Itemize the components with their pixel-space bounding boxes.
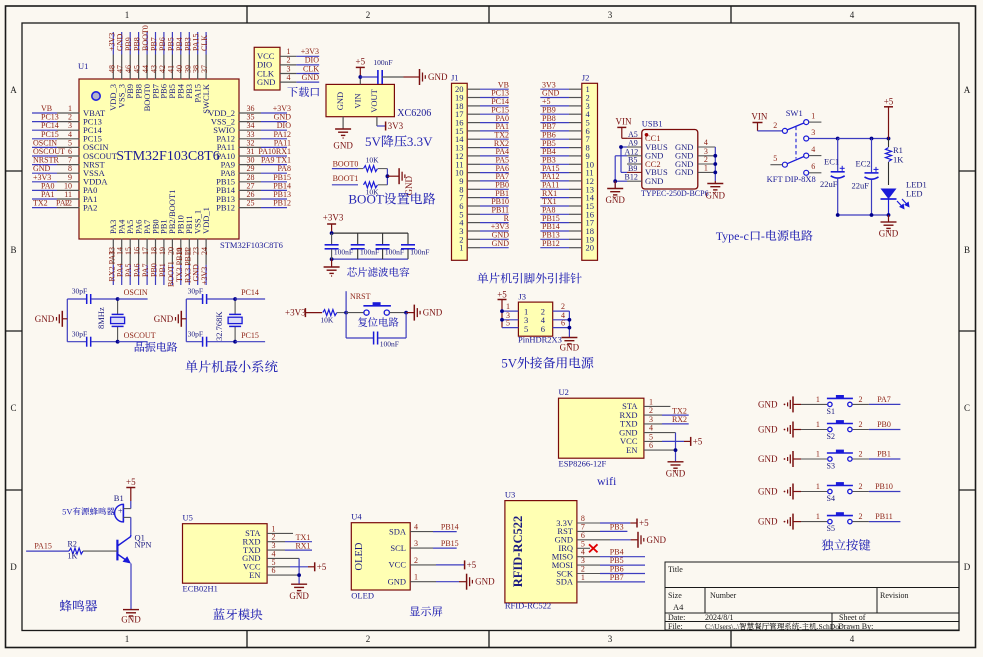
svg-text:CLK: CLK	[200, 35, 209, 51]
svg-text:Date:: Date:	[668, 613, 685, 622]
ground bar at XC6206 input cap	[419, 69, 421, 85]
svg-text:PB12: PB12	[216, 202, 235, 212]
button S2 net PB0	[801, 429, 827, 431]
U1 pin 7 NRST wire/net NRSTR	[57, 164, 80, 166]
U1 pin 40 PB4 wire/net PB4	[180, 55, 182, 80]
title block	[665, 562, 959, 630]
svg-text:B: B	[964, 245, 970, 255]
svg-text:Drawn By:: Drawn By:	[838, 622, 873, 631]
U1 pin 3 PC14 wire/net PC14	[57, 129, 80, 131]
svg-text:5V有源蜂鸣器: 5V有源蜂鸣器	[62, 506, 115, 518]
svg-text:BOOT设置电路: BOOT设置电路	[348, 188, 435, 207]
J3 pin 6 wire	[553, 327, 570, 329]
svg-text:复位电路: 复位电路	[357, 314, 399, 329]
U1 pin 1 VBAT wire/net VB	[57, 112, 80, 114]
svg-text:GND: GND	[302, 73, 320, 82]
svg-text:+5: +5	[126, 477, 136, 487]
connector USB1 TYPEC body	[642, 130, 698, 190]
wire buzzer to Q1 collector	[130, 517, 132, 534]
svg-text:1: 1	[811, 112, 815, 121]
U1 pin 25 PB12 wire/net PB12	[239, 207, 262, 209]
U2 GND wire to earth	[644, 432, 676, 434]
U5 VCC wire to +5	[267, 566, 290, 568]
svg-text:Type-c口-电源电路: Type-c口-电源电路	[716, 227, 813, 244]
svg-text:S4: S4	[827, 494, 835, 503]
ground bar reset	[413, 305, 415, 321]
svg-text:PA2: PA2	[83, 202, 97, 212]
U1 pin 39 PB3 wire/net PB3	[188, 55, 190, 80]
ground earth below filter caps	[331, 259, 333, 266]
svg-text:4: 4	[811, 145, 815, 154]
svg-text:1: 1	[816, 450, 820, 459]
svg-text:GND: GND	[647, 535, 667, 545]
svg-text:PB7: PB7	[610, 573, 624, 582]
U1 pin 4 PC15 wire/net PC15	[57, 138, 80, 140]
svg-text:6: 6	[649, 441, 653, 450]
svg-text:30pF: 30pF	[188, 287, 203, 296]
svg-text:VOUT: VOUT	[369, 88, 379, 112]
svg-text:GND: GND	[121, 615, 141, 625]
svg-text:NPN: NPN	[135, 540, 152, 550]
svg-text:+5: +5	[497, 290, 507, 300]
connector J1 body	[452, 83, 468, 260]
svg-text:100nF: 100nF	[380, 340, 399, 349]
svg-text:30pF: 30pF	[188, 330, 203, 339]
button S5 net PB11	[801, 521, 827, 523]
svg-text:2: 2	[859, 482, 863, 491]
U1 pin 26 PB13 wire/net PB13	[239, 198, 262, 200]
svg-text:GND: GND	[335, 92, 345, 110]
svg-text:Number: Number	[710, 591, 737, 600]
ground bar 8MHz	[62, 318, 67, 320]
svg-text:100nF: 100nF	[334, 247, 353, 256]
crystal circuit 32.768K left rail	[185, 299, 187, 342]
svg-text:蜂鸣器: 蜂鸣器	[59, 596, 98, 615]
svg-text:Sheet of: Sheet of	[839, 613, 866, 622]
ground earth J3	[561, 337, 577, 339]
USB1 pin B9 VBUS	[627, 171, 642, 173]
svg-text:2: 2	[366, 634, 371, 644]
svg-text:100nF: 100nF	[410, 247, 429, 256]
U3 RST wire PB3	[577, 530, 600, 532]
capacitor 100nF reset	[345, 313, 347, 338]
U3 IRQ no connect X	[577, 547, 590, 549]
capacitor 100nF at XC6206	[360, 76, 378, 78]
svg-text:1: 1	[816, 512, 820, 521]
U1 pin 14 PA4 wire/net PA4	[121, 239, 123, 265]
svg-text:wifi: wifi	[597, 474, 617, 488]
svg-text:4: 4	[649, 424, 653, 433]
svg-text:VCC: VCC	[389, 560, 407, 570]
filter cap bottom rail	[332, 258, 408, 260]
svg-text:10K: 10K	[320, 316, 334, 325]
reset button S	[346, 312, 364, 314]
crystal 8MHz	[117, 299, 119, 314]
power flag 3V3	[385, 122, 387, 131]
wire cap to GND bar	[382, 76, 403, 78]
svg-text:下载口: 下载口	[287, 84, 320, 100]
U1 pin 41 PB5 wire/net PB5	[171, 55, 173, 80]
bottom rail LED circuit	[838, 214, 889, 216]
button S1 net PA7	[801, 403, 827, 405]
filter cap top rail	[332, 232, 408, 234]
USB1 pin A5 CC1	[627, 137, 642, 139]
U3 GND wire to ground bar	[577, 539, 610, 541]
svg-text:3: 3	[811, 128, 815, 137]
svg-text:PA15: PA15	[34, 541, 52, 550]
svg-text:32.768K: 32.768K	[214, 311, 224, 341]
svg-text:3: 3	[649, 415, 653, 424]
capacitor C2 100nF	[357, 233, 359, 245]
node OSCIN	[116, 297, 120, 301]
svg-text:SCL: SCL	[390, 543, 406, 553]
svg-text:1: 1	[414, 573, 418, 582]
svg-text:2: 2	[859, 512, 863, 521]
svg-text:GND: GND	[675, 167, 693, 177]
svg-text:EN: EN	[626, 445, 637, 455]
ground earth U5	[291, 583, 307, 585]
svg-text:U4: U4	[351, 512, 362, 522]
svg-text:U3: U3	[505, 490, 515, 500]
svg-text:B: B	[10, 245, 16, 255]
U1 pin 18 PB0 wire/net PB0	[155, 239, 157, 265]
svg-text:4: 4	[414, 523, 418, 532]
J3 pin 1 wire	[502, 310, 518, 312]
USB1 pin B5 CC2	[627, 163, 642, 165]
svg-text:PB11: PB11	[875, 512, 893, 521]
U1 pin 16 PA6 wire/net PA6	[138, 239, 140, 265]
svg-text:芯片滤波电容: 芯片滤波电容	[347, 265, 410, 280]
module U4 OLED body	[351, 523, 410, 590]
U1 pin 37 SWCLK wire/net CLK	[205, 55, 207, 80]
svg-text:PB12: PB12	[273, 199, 291, 208]
svg-text:SDA: SDA	[556, 577, 574, 587]
U1 pin 6 OSCOUT wire/net OSCOUT	[57, 155, 80, 157]
svg-text:U1: U1	[78, 61, 88, 71]
U5 GND wire	[267, 557, 299, 559]
SW1 pole 5	[782, 162, 787, 167]
U1 pin 10 PA0 wire/net PA0	[57, 189, 80, 191]
U1 pin 11 PA1 wire/net PA1	[57, 198, 80, 200]
svg-text:GND: GND	[492, 239, 510, 248]
ground earth USB1 left	[614, 181, 616, 188]
op-amp U1 body STM32F103C8T6	[79, 79, 239, 239]
svg-text:D: D	[10, 562, 17, 572]
svg-text:单片机引脚外引排针: 单片机引脚外引排针	[477, 271, 583, 287]
USB1 VBUS left rail	[620, 147, 622, 172]
svg-text:GND: GND	[154, 314, 174, 324]
ground earth LED circuit	[888, 215, 890, 222]
U1 pin 13 PA3 wire/net RX2 PA3	[112, 239, 114, 265]
svg-text:30pF: 30pF	[72, 287, 87, 296]
U2 EN wire	[644, 449, 676, 451]
svg-text:22uF: 22uF	[852, 181, 870, 191]
svg-text:Title: Title	[668, 565, 683, 574]
svg-text:25: 25	[247, 199, 255, 208]
svg-text:LED: LED	[906, 189, 923, 199]
svg-text:RX2: RX2	[672, 415, 687, 424]
svg-text:2: 2	[366, 10, 371, 20]
node PC14	[233, 297, 237, 301]
svg-text:PB0: PB0	[877, 420, 891, 429]
J3 pin 3 wire	[502, 319, 518, 321]
U1 pin 29 PA8 wire/net PA8	[239, 172, 262, 174]
svg-text:File:: File:	[668, 622, 683, 631]
svg-text:GND: GND	[605, 195, 625, 205]
svg-text:8MHz: 8MHz	[96, 307, 106, 329]
svg-text:1: 1	[459, 243, 463, 253]
svg-text:TX2: TX2	[672, 406, 687, 415]
svg-text:NRST: NRST	[350, 292, 371, 301]
svg-text:蓝牙模块: 蓝牙模块	[213, 605, 264, 623]
svg-text:+5: +5	[317, 562, 327, 572]
USB1 A12-B12 left wire	[615, 155, 627, 157]
svg-text:Revision: Revision	[880, 591, 908, 600]
svg-text:VDD_1: VDD_1	[201, 207, 211, 234]
J3 pin 5 wire	[502, 327, 518, 329]
J3 pin 4 wire	[553, 319, 570, 321]
U1 pin 12 PA2 wire/net TX2	[57, 207, 80, 209]
svg-text:PB3: PB3	[610, 522, 624, 531]
svg-text:GND: GND	[758, 487, 778, 497]
svg-text:100nF: 100nF	[373, 58, 392, 67]
svg-text:S2: S2	[827, 432, 835, 441]
svg-text:SWCLK: SWCLK	[201, 83, 211, 114]
U1 pin 33 PA12 wire/net PA12	[239, 138, 262, 140]
svg-text:1K: 1K	[893, 155, 904, 165]
U1 pin 9 VDDA wire/net +3V3	[57, 181, 80, 183]
U1 pin 38 PA15 wire/net PA15	[197, 55, 199, 80]
SW1 throw 6	[804, 170, 809, 175]
U1 pin 32 PA11 wire/net PA11	[239, 146, 262, 148]
svg-text:2: 2	[859, 420, 863, 429]
node PC15	[233, 340, 237, 344]
U1 pin 46 PB9 wire/net PB9	[129, 55, 131, 80]
svg-text:GND: GND	[666, 469, 686, 479]
USB1 pin A9 VBUS	[627, 146, 642, 148]
regulator XC6206 body	[326, 84, 394, 116]
svg-text:GND: GND	[35, 314, 55, 324]
svg-text:Size: Size	[668, 591, 682, 600]
J3 pin 2 wire	[553, 310, 570, 312]
node reset right junction	[404, 311, 408, 315]
svg-text:S3: S3	[827, 462, 835, 471]
capacitor C4 100nF	[407, 233, 409, 245]
ground bar at BOOT divider	[398, 168, 400, 184]
svg-text:6: 6	[811, 162, 815, 171]
svg-text:TX2: TX2	[33, 199, 48, 208]
USB1 pin B12 GND	[627, 180, 642, 182]
resistor 10K lower BOOT1	[364, 182, 378, 188]
svg-text:6: 6	[541, 324, 545, 334]
svg-text:A9: A9	[628, 139, 638, 148]
svg-text:+3V3: +3V3	[323, 213, 344, 223]
U1 pin 20 PB2/BOOT1 wire/net BOOT1	[171, 239, 173, 265]
svg-text:GND: GND	[428, 72, 448, 82]
svg-text:A: A	[10, 85, 17, 95]
capacitor 30pF top 8MHz	[67, 298, 86, 300]
svg-text:OLED: OLED	[351, 590, 374, 600]
LED LED1	[881, 189, 897, 200]
svg-text:3: 3	[608, 10, 613, 20]
svg-text:PB15: PB15	[441, 539, 459, 548]
svg-text:GND: GND	[879, 229, 899, 239]
svg-text:ECB02H1: ECB02H1	[183, 584, 218, 594]
U1 pin 34 SWIO wire/net DIO	[239, 129, 262, 131]
svg-text:XC6206: XC6206	[397, 108, 431, 119]
connector J2 body	[582, 83, 598, 260]
svg-text:GND: GND	[475, 577, 495, 587]
capacitor EC1 22uF	[837, 139, 839, 172]
U3 pin wire PB7	[577, 581, 600, 583]
U1 pin 31 PA10 wire/net PA10RX1	[239, 155, 262, 157]
resistor R2 1K base	[26, 550, 69, 552]
SW1 pole 2 wire	[758, 130, 783, 132]
svg-text:C: C	[964, 403, 970, 413]
svg-text:S1: S1	[827, 407, 835, 416]
svg-text:GND: GND	[560, 343, 580, 353]
svg-text:U2: U2	[559, 387, 569, 397]
svg-text:USB1: USB1	[642, 119, 663, 129]
svg-text:STM32F103C8T6: STM32F103C8T6	[220, 240, 283, 250]
module U5 ECB02H1 body	[183, 524, 268, 584]
U1 pin 2 PC13 wire/net PC13	[57, 121, 80, 123]
svg-text:GND: GND	[758, 454, 778, 464]
capacitor 30pF bottom 8MHz	[67, 341, 86, 343]
wire +5 node to VIN	[359, 77, 361, 84]
capacitor C3 100nF	[382, 233, 384, 245]
svg-text:1: 1	[125, 10, 130, 20]
wire VOUT to 3V3 flag	[376, 117, 378, 126]
resistor 10K upper BOOT0	[358, 168, 363, 170]
resistor 10K reset	[323, 310, 337, 316]
U1 pin 48 VDD_3 wire/net +3V3	[112, 55, 114, 80]
svg-text:5: 5	[649, 432, 653, 441]
U4 VCC to +5	[410, 564, 436, 566]
node NRST	[344, 311, 348, 315]
SW1 throw 1	[804, 120, 809, 125]
USB1 right ground rail	[714, 147, 716, 181]
U1 pin 24 VDD_1 wire/net +3V3	[205, 239, 207, 265]
ground earth at XC6206 GND pin	[342, 117, 344, 129]
U4 GND to ground bar	[410, 581, 436, 583]
button S4 net PB10	[801, 491, 827, 493]
svg-text:6: 6	[561, 319, 565, 328]
U1 pin 47 VSS_3 wire/net GND	[121, 55, 123, 80]
svg-text:22uF: 22uF	[820, 179, 838, 189]
svg-text:2: 2	[561, 302, 565, 311]
svg-text:1: 1	[704, 164, 708, 173]
svg-text:+5: +5	[356, 56, 366, 66]
svg-text:4: 4	[850, 634, 855, 644]
button S3 net PB1	[801, 458, 827, 460]
transistor Q1 NPN	[116, 540, 118, 561]
U2 VCC wire to +5	[644, 440, 662, 442]
svg-text:TYPEC-250D-BCP6: TYPEC-250D-BCP6	[641, 189, 709, 198]
svg-text:1K: 1K	[68, 552, 78, 561]
U1 pin 19 PB1 wire/net PB1	[163, 239, 165, 265]
svg-text:5: 5	[506, 319, 510, 328]
svg-text:GND: GND	[388, 577, 406, 587]
svg-text:U5: U5	[183, 513, 193, 523]
svg-text:J2: J2	[582, 73, 590, 83]
U1 pin 17 PA7 wire/net PA7	[146, 239, 148, 265]
svg-text:4: 4	[287, 73, 291, 82]
svg-text:PC14: PC14	[241, 288, 259, 297]
svg-text:3: 3	[608, 634, 613, 644]
SW1 dashed link	[795, 127, 797, 159]
svg-text:EN: EN	[249, 570, 260, 580]
U1 pin 44 BOOT0 wire/net BOOT0	[146, 55, 148, 80]
capacitor 30pF bottom 32.768K	[186, 341, 202, 343]
U5 EN wire	[267, 574, 299, 576]
U1 pin 45 PB8 wire/net PB8	[138, 55, 140, 80]
svg-text:B9: B9	[628, 164, 637, 173]
crystal circuit 8MHz left rail	[66, 299, 68, 342]
svg-text:STM32F103C8T6: STM32F103C8T6	[116, 149, 219, 164]
svg-text:+5: +5	[693, 436, 703, 446]
svg-text:PA7: PA7	[877, 395, 891, 404]
svg-text:1: 1	[649, 397, 653, 406]
svg-text:RX1: RX1	[295, 541, 310, 550]
ground earth U2	[668, 461, 684, 463]
svg-text:C: C	[10, 403, 16, 413]
svg-text:+: +	[118, 507, 123, 516]
svg-text:+3V3: +3V3	[200, 267, 209, 285]
svg-text:1: 1	[125, 634, 130, 644]
svg-text:A: A	[964, 85, 971, 95]
svg-text:2: 2	[414, 556, 418, 565]
power flag +5 at XC6206	[356, 66, 365, 68]
svg-text:PC15: PC15	[241, 331, 259, 340]
svg-text:GND: GND	[645, 176, 663, 186]
svg-text:+5: +5	[884, 97, 894, 107]
svg-text:GND: GND	[333, 141, 353, 151]
svg-text:GND: GND	[758, 399, 778, 409]
svg-text:RFID-RC522: RFID-RC522	[505, 600, 551, 610]
svg-text:EC1: EC1	[824, 157, 839, 167]
svg-text:PB12: PB12	[542, 239, 560, 248]
svg-text:3: 3	[414, 539, 418, 548]
capacitor 30pF top 32.768K	[186, 298, 202, 300]
svg-text:PB10: PB10	[875, 482, 893, 491]
svg-text:GND: GND	[758, 517, 778, 527]
svg-text:1: 1	[816, 395, 820, 404]
ground earth buzzer	[123, 609, 139, 611]
svg-text:RFID-RC522: RFID-RC522	[511, 516, 525, 588]
crystal 32.768K	[234, 299, 236, 314]
svg-text:独立按键: 独立按键	[821, 536, 870, 554]
svg-text:KFT DIP-8X8: KFT DIP-8X8	[767, 174, 816, 184]
svg-text:1: 1	[816, 482, 820, 491]
U3 3.3V wire to +5	[577, 522, 600, 524]
U1 pin 21 PB10 wire/net TX3 PB10	[180, 239, 182, 265]
svg-text:OSCIN: OSCIN	[124, 288, 148, 297]
svg-text:+5: +5	[639, 518, 649, 528]
svg-text:10K: 10K	[366, 156, 380, 165]
svg-text:5: 5	[524, 324, 528, 334]
svg-text:1: 1	[506, 302, 510, 311]
capacitor EC2 22uF	[871, 139, 873, 173]
svg-text:B12: B12	[625, 173, 638, 182]
J3 right rail to ground	[568, 311, 570, 337]
svg-text:VIN: VIN	[352, 93, 362, 108]
U1 pin 30 PA9 wire/net PA9 TX1	[239, 164, 262, 166]
svg-text:晶振电路: 晶振电路	[134, 339, 178, 355]
svg-text:C:\Users\..\智慧餐厅管理系统-主机.SchDoc: C:\Users\..\智慧餐厅管理系统-主机.SchDoc	[705, 621, 843, 632]
svg-text:GND: GND	[289, 591, 309, 601]
svg-text:5V外接备用电源: 5V外接备用电源	[501, 353, 594, 372]
